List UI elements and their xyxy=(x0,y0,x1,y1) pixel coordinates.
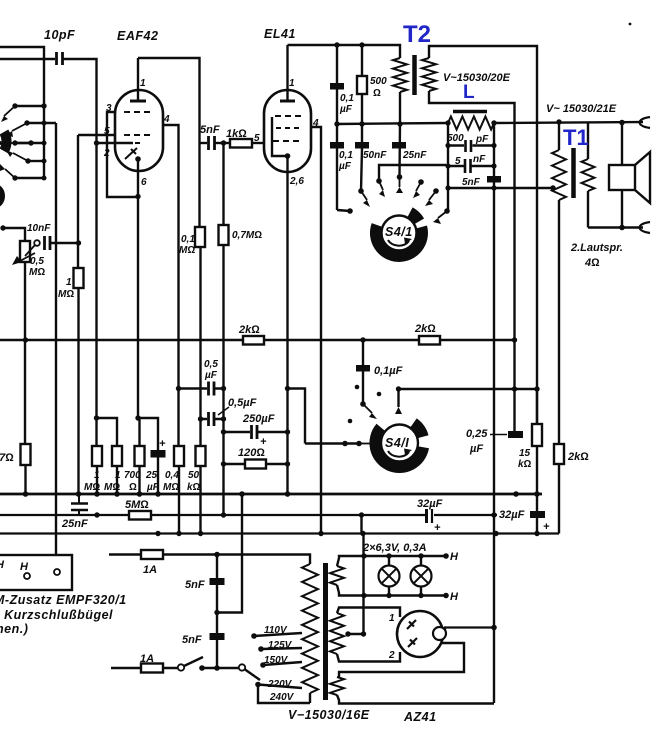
wire 0,1uF chain to S4/1 contact xyxy=(337,210,350,211)
switch S1 contact row 3 xyxy=(15,142,44,144)
svg-text:2: 2 xyxy=(388,650,395,661)
switch S1 contact row 5 xyxy=(15,177,44,179)
resistor 2kOhm right xyxy=(419,336,440,345)
transformer T1 right winding xyxy=(582,159,595,191)
svg-text:25nF: 25nF xyxy=(61,518,88,530)
resistor 5 MOhm in rail C xyxy=(129,511,151,520)
wire 50k to rail D xyxy=(199,466,201,533)
wire pot bottom down to 47 Ohm xyxy=(24,262,26,444)
capacitor 5nF blob on right rail xyxy=(487,176,501,183)
main bus 2k y340 xyxy=(0,339,515,341)
switch S1 contact row 1 xyxy=(15,105,44,107)
svg-text:1: 1 xyxy=(115,470,121,481)
switch S1 contact row 4 xyxy=(28,160,44,162)
svg-text:10pF: 10pF xyxy=(44,28,75,42)
ladder rung bottom wire to T1 tap xyxy=(448,187,553,189)
switch S4/2 left arrow xyxy=(359,443,370,445)
ladder left rail xyxy=(447,123,449,211)
junction dot 5nF mid xyxy=(214,610,219,615)
wire 10nF to 1M node xyxy=(50,242,78,244)
svg-text:4: 4 xyxy=(163,114,170,125)
capacitor 0,5uF screen wire xyxy=(179,387,224,389)
resistor 0,1 MOhm xyxy=(195,227,205,247)
AZ41 output wire xyxy=(445,628,496,631)
capacitor 0,5uF lower wire xyxy=(201,418,224,420)
capacitor 0,1uF lower blob xyxy=(330,142,344,149)
secondary HV winding xyxy=(330,613,344,654)
wire top-left input to node A xyxy=(0,47,44,178)
capacitor 32uF second blob xyxy=(530,511,545,518)
svg-text:H: H xyxy=(20,561,29,573)
junction dot jog xyxy=(285,386,290,391)
capacitor 250uF wire xyxy=(224,431,288,433)
svg-text:4Ω: 4Ω xyxy=(584,257,600,269)
svg-text:+: + xyxy=(159,438,166,450)
heater top lead to lamp rail xyxy=(337,556,446,566)
AZ41 side nipple xyxy=(433,627,446,640)
lamp 2 xyxy=(411,566,432,587)
svg-text:+: + xyxy=(543,521,550,533)
svg-text:5: 5 xyxy=(455,156,461,167)
T1 left top lead xyxy=(558,122,560,150)
svg-text:Ω: Ω xyxy=(373,88,381,99)
svg-text:6: 6 xyxy=(141,177,147,188)
ladder rung 5nF xyxy=(448,165,494,167)
T2 winding bottom lead xyxy=(399,92,401,124)
EL41 pin 4 lead xyxy=(311,127,321,533)
capacitor 0,1uF anode blob xyxy=(362,340,364,404)
secondary bias winding xyxy=(330,677,344,695)
capacitor 32uF electrolytic in rail C xyxy=(425,509,428,523)
capacitor 5nF line cap lower xyxy=(210,633,225,640)
speaker cone xyxy=(635,152,650,203)
wire fuse to primary top xyxy=(217,555,310,565)
resistor 1 MOhm row a xyxy=(92,446,102,466)
svg-text:220V: 220V xyxy=(267,679,293,690)
wire antenna input to 10pF xyxy=(0,58,55,60)
svg-text:+: + xyxy=(434,522,441,534)
svg-text:1: 1 xyxy=(289,78,295,89)
svg-text:2,6: 2,6 xyxy=(289,176,304,187)
wire 10pF to EAF42 grid line xyxy=(63,59,97,446)
svg-text:5nF: 5nF xyxy=(182,634,202,646)
capacitor 10nF xyxy=(45,236,51,250)
junction dot pin2 grid node xyxy=(94,140,99,145)
svg-text:2kΩ: 2kΩ xyxy=(567,451,589,463)
wire 5nF mid tap to rail xyxy=(217,494,242,613)
mains switch contact 1 xyxy=(178,664,184,670)
EL41 pins 2,6 lead down xyxy=(286,156,288,494)
rotary switch S1 lower blob xyxy=(0,184,5,208)
wire EL41 cathode jog xyxy=(288,389,306,444)
lamp 1 leads xyxy=(388,556,390,596)
T2 right bottom lead xyxy=(429,91,515,431)
capacitor 50nF blob xyxy=(355,142,369,149)
tap line 150V xyxy=(263,662,302,665)
svg-text:T1: T1 xyxy=(563,125,589,150)
svg-text:1: 1 xyxy=(66,277,72,288)
svg-text:AZ41: AZ41 xyxy=(403,710,437,724)
EAF42 anode pin 1 xyxy=(137,58,139,101)
svg-text:µF: µF xyxy=(339,104,353,115)
EAF42 grid pin 5 dashed xyxy=(124,134,153,136)
junction dot cathode jog xyxy=(135,415,140,420)
junction dots bus xyxy=(23,337,517,342)
junction dot cathode/pin3 xyxy=(135,194,140,199)
junction dot grid stopper node xyxy=(221,140,226,145)
svg-text:1kΩ: 1kΩ xyxy=(226,128,247,140)
secondary heater winding xyxy=(330,566,344,585)
svg-text:0,5µF: 0,5µF xyxy=(228,397,257,409)
node AVC dot xyxy=(0,225,5,230)
lamp 2 leads xyxy=(420,556,422,596)
svg-text:2kΩ: 2kΩ xyxy=(238,324,260,336)
svg-text:0,4: 0,4 xyxy=(165,470,179,481)
wire 47 Ohm to rail B xyxy=(24,465,26,494)
AZ41 anode 1 xyxy=(407,620,416,629)
tap line 220V xyxy=(258,685,302,689)
transformer T2 left winding xyxy=(393,58,407,92)
capacitor 0,1uF blob upper xyxy=(336,45,338,210)
junction dots top wire xyxy=(334,42,339,47)
junction dots rail B xyxy=(23,491,540,497)
wire EL41 anode top to T2 xyxy=(288,45,401,58)
transformer T2 core xyxy=(412,55,417,95)
wire 0,7M down to 120 Ohm node xyxy=(222,245,224,515)
resistor 1 MOhm row b xyxy=(112,446,122,466)
HV bottom lead to AZ41 pin2 xyxy=(337,652,400,662)
inductor L core bar xyxy=(453,110,487,114)
EL41 cathode dot xyxy=(285,153,291,159)
svg-text:5MΩ: 5MΩ xyxy=(125,499,149,511)
svg-text:50nF: 50nF xyxy=(363,150,387,161)
junction dots y389 xyxy=(360,386,540,407)
wire S4/2 feed y389 xyxy=(399,388,538,390)
switch S4/1 black arc top right segment xyxy=(407,207,424,224)
wire 700 Ohm to rail B xyxy=(138,466,140,494)
tap 240V bottom lead xyxy=(258,685,310,704)
svg-text:1: 1 xyxy=(94,470,100,481)
svg-text:S4/I: S4/I xyxy=(385,436,409,450)
resistor 120 Ohm xyxy=(224,463,288,465)
rail B main chassis xyxy=(0,493,542,496)
svg-text:5: 5 xyxy=(254,133,260,144)
svg-text:240V: 240V xyxy=(269,692,295,703)
junction dot heater tap xyxy=(361,631,366,636)
wire 1k to EL41 pin 5 xyxy=(252,142,264,144)
svg-text:2: 2 xyxy=(103,148,110,159)
capacitor 5nF coupling xyxy=(209,136,215,150)
svg-text:0,7MΩ: 0,7MΩ xyxy=(232,230,262,241)
ladder right rail long vertical xyxy=(493,123,495,703)
svg-text:50: 50 xyxy=(188,470,200,481)
rail C second xyxy=(0,514,497,516)
svg-text:S4/1: S4/1 xyxy=(385,225,413,239)
svg-text:µF: µF xyxy=(204,370,218,381)
transformer T1 left winding xyxy=(552,150,566,200)
svg-text:0,1: 0,1 xyxy=(340,93,354,104)
svg-text:4: 4 xyxy=(312,118,319,129)
capacitor 5nF line cap upper xyxy=(216,555,218,669)
switch S4/1 contact dots xyxy=(347,174,450,214)
rotary switch S1 partial left edge xyxy=(4,132,7,151)
EAF42 anode top wire to coupling node xyxy=(138,58,200,227)
wire coupling node y143 xyxy=(200,142,208,144)
junction dot jog row xyxy=(94,415,99,420)
svg-text:0,25: 0,25 xyxy=(466,428,488,440)
svg-text:µF: µF xyxy=(469,443,483,455)
svg-text:5nF: 5nF xyxy=(462,177,481,188)
HV top lead to AZ41 pin1 xyxy=(337,608,400,618)
junction dots lamp rails xyxy=(361,553,449,598)
inductor L winding xyxy=(448,117,494,130)
T1 core xyxy=(571,148,576,198)
svg-text:150V: 150V xyxy=(264,655,289,666)
resistor 1 MOhm grid xyxy=(74,268,84,288)
EAF42 pin 5 lead xyxy=(78,134,115,136)
pot tap diagonal xyxy=(25,245,35,256)
svg-text:25nF: 25nF xyxy=(402,150,427,161)
svg-text:250µF: 250µF xyxy=(242,413,275,425)
wire row b to rail B xyxy=(116,466,118,494)
stray dot top right xyxy=(629,23,632,26)
svg-text:5nF: 5nF xyxy=(185,579,205,591)
switch S4/2 thin circle xyxy=(381,425,418,462)
switch link wire S4/1 xyxy=(379,165,446,181)
svg-text:MΩ: MΩ xyxy=(58,289,74,300)
connector terminal circles xyxy=(24,573,30,579)
EL41 anode pin 1 xyxy=(286,45,288,101)
transformer T2 right winding xyxy=(422,58,436,91)
switch S1 contact row 2 xyxy=(27,122,56,124)
wire 0,1M down to 50k column xyxy=(199,247,201,446)
svg-text:0,1: 0,1 xyxy=(339,150,353,161)
svg-text:1: 1 xyxy=(140,78,146,89)
heater feed vertical xyxy=(348,515,364,634)
svg-text:125V: 125V xyxy=(268,640,293,651)
svg-text:0,5: 0,5 xyxy=(204,359,218,370)
wire 0,7M column xyxy=(222,143,224,225)
EL41 grid1 dashed xyxy=(275,115,301,117)
EL41 grid3 dashed xyxy=(273,140,300,142)
switch S4/2 black arc top segment xyxy=(410,418,428,438)
svg-text:47Ω: 47Ω xyxy=(0,452,14,464)
switch S4/1 rotation arrow xyxy=(388,240,409,246)
EAF42 grid pin 3 dashed xyxy=(124,111,154,113)
wire S4/2 top contact xyxy=(397,389,399,407)
EL41 grid2 dashed xyxy=(276,127,300,129)
svg-text:1A: 1A xyxy=(143,564,157,576)
svg-text:L: L xyxy=(463,82,475,103)
capacitor 25nF blob xyxy=(398,124,401,177)
EAF42 pin 6 lead down xyxy=(137,159,139,418)
resistor 47 Ohm xyxy=(21,444,31,465)
resistor 15 kOhm xyxy=(536,389,538,511)
svg-text:EAF42: EAF42 xyxy=(117,29,158,43)
resistor 1kOhm xyxy=(230,139,252,148)
cathode jog to 25uF xyxy=(138,418,158,450)
voltage tap dots xyxy=(251,633,266,687)
junction dots rail C xyxy=(94,512,496,517)
svg-text:500: 500 xyxy=(370,76,387,87)
fuse 1A upper xyxy=(109,553,217,555)
AZ41 cathode loop xyxy=(339,643,464,677)
wire grid leak column 1M xyxy=(77,135,79,268)
svg-text:V~15030/20E: V~15030/20E xyxy=(443,72,511,84)
T1 right top lead xyxy=(587,123,589,159)
junction dot 10nF node xyxy=(76,240,81,245)
junction dots 250uF xyxy=(221,429,226,434)
switch S4/2 black arc main xyxy=(369,424,429,473)
svg-text:EL41: EL41 xyxy=(264,27,296,41)
EAF42 cathode dot pin 6 xyxy=(135,156,141,162)
svg-text:700: 700 xyxy=(124,470,141,481)
svg-text:25: 25 xyxy=(145,470,158,481)
svg-text:5nF: 5nF xyxy=(200,124,220,136)
junction dots switch node xyxy=(199,665,205,671)
svg-text:H: H xyxy=(450,551,459,563)
junction dots speaker line xyxy=(619,225,625,231)
svg-text:µF: µF xyxy=(338,161,352,172)
resistor row jog 1M-1M xyxy=(97,418,118,446)
svg-text:500: 500 xyxy=(447,133,464,144)
rectifier AZ41 envelope xyxy=(397,611,443,657)
svg-text:Ω: Ω xyxy=(129,482,137,493)
EAF42 pin 2 lead xyxy=(97,142,134,144)
svg-text:10nF: 10nF xyxy=(27,223,51,234)
lamp 1 xyxy=(379,566,400,587)
junction dot fuse node xyxy=(214,552,220,558)
svg-text:15: 15 xyxy=(519,448,531,459)
svg-text:2.Lautspr.: 2.Lautspr. xyxy=(570,242,623,254)
svg-text:MΩ: MΩ xyxy=(163,482,179,493)
fuse 1A lower xyxy=(111,667,178,669)
wire 50nF to S4/1 contact xyxy=(361,148,362,191)
svg-text:M-Zusatz EMPF320/1: M-Zusatz EMPF320/1 xyxy=(0,593,127,607)
pot tap terminal circle xyxy=(34,240,40,246)
wire AVC node to pot top xyxy=(3,228,25,241)
svg-text:V−15030/16E: V−15030/16E xyxy=(288,708,370,722)
wire T1 bottom to speaker terminal xyxy=(588,226,643,228)
switch S4/2 contact dots xyxy=(342,385,381,447)
speaker terminal hook top xyxy=(640,117,651,128)
switch S4/1 thin circle xyxy=(382,216,417,251)
svg-text:2kΩ: 2kΩ xyxy=(414,323,436,335)
pot wiper arrow xyxy=(18,253,35,262)
AZ41 anode 2 xyxy=(408,638,417,647)
potentiometer 0,5 MOhm xyxy=(20,241,30,262)
resistor 0,4 MOhm xyxy=(174,446,184,466)
ladder rung 500pF xyxy=(448,144,494,146)
svg-text:MΩ: MΩ xyxy=(29,267,45,278)
anode HF rail y123 xyxy=(337,123,448,124)
tap line 110V xyxy=(254,633,302,636)
svg-text:V~ 15030/21E: V~ 15030/21E xyxy=(546,103,617,115)
bias winding bottom lead xyxy=(337,695,494,704)
junction dots rail y123 xyxy=(334,120,496,126)
svg-text:H: H xyxy=(450,591,459,603)
junction dots ladder xyxy=(445,143,555,191)
resistor 0,7 MOhm xyxy=(219,225,229,245)
HF rail continues to speaker xyxy=(494,122,643,123)
switch S4/2 rotation arrow xyxy=(388,451,409,457)
capacitor 25uF electrolytic blob xyxy=(151,450,166,458)
EAF42 diode plate xyxy=(125,148,137,159)
svg-text:120Ω: 120Ω xyxy=(238,447,265,459)
T1 right bottom lead xyxy=(587,191,589,228)
junction dots 0,5uF lower xyxy=(198,416,203,421)
wire 5nF to 1k xyxy=(215,142,231,144)
junction dot HT output xyxy=(491,625,497,631)
transformer primary winding xyxy=(302,564,318,693)
svg-text:1A: 1A xyxy=(140,653,154,665)
wire switch node xyxy=(202,667,239,669)
tube EAF42 envelope xyxy=(115,90,163,171)
svg-text:3: 3 xyxy=(106,103,112,114)
EAF42 pin 4 lead xyxy=(163,125,179,446)
resistor 700 Ohm xyxy=(138,418,140,446)
resistor 500 Ohm xyxy=(361,45,363,145)
switch S4/1 black arc main xyxy=(370,223,428,262)
speaker magnet box xyxy=(621,122,623,227)
switch S4/1 contact arrows xyxy=(361,177,447,218)
junction dots rail D xyxy=(155,531,539,536)
wire 0,4M to rail D xyxy=(178,466,180,533)
svg-text:2×6,3V, 0,3A: 2×6,3V, 0,3A xyxy=(362,542,427,554)
svg-text:1: 1 xyxy=(389,613,395,624)
svg-text:pF: pF xyxy=(475,134,489,145)
svg-text:T2: T2 xyxy=(403,21,431,48)
wire 25uF to rail B xyxy=(157,457,159,494)
junction dots 120 Ohm xyxy=(221,461,226,466)
svg-text:32µF: 32µF xyxy=(499,509,525,521)
resistor 50 kOhm xyxy=(196,446,206,466)
EL41 beam plate L xyxy=(272,117,287,156)
svg-text:hen.): hen.) xyxy=(0,622,28,636)
svg-text:n Kurzschlußbügel: n Kurzschlußbügel xyxy=(0,608,113,622)
transformer core power xyxy=(323,563,328,700)
junction dots 0,5uF upper xyxy=(176,386,181,391)
connector box EMPF xyxy=(0,555,72,590)
svg-text:nF: nF xyxy=(473,154,486,165)
wire 32uF second to rail D xyxy=(536,518,538,534)
mains switch contact 2 xyxy=(239,664,245,670)
T2 right top lead to HT line xyxy=(429,46,537,424)
wire band-switch bus down xyxy=(55,123,57,556)
junction dots switch S1 rows xyxy=(12,103,46,180)
resistor 2kOhm left xyxy=(243,336,264,345)
svg-text:5: 5 xyxy=(104,126,110,137)
resistor 2kOhm output chain xyxy=(558,200,560,534)
svg-text:32µF: 32µF xyxy=(417,498,443,510)
tube EL41 envelope xyxy=(264,90,311,172)
svg-text:0,1: 0,1 xyxy=(181,234,195,245)
capacitor C 10pF xyxy=(57,52,63,65)
heater bottom lead to lamp rail xyxy=(337,585,446,596)
switch S4/2 left contact wire xyxy=(305,442,359,444)
svg-text:MΩ: MΩ xyxy=(179,245,195,256)
svg-text:kΩ: kΩ xyxy=(187,482,201,493)
rail D third xyxy=(0,532,559,534)
svg-text:kΩ: kΩ xyxy=(518,459,532,470)
wire 1M to rail B xyxy=(77,288,79,494)
arrow 0,1uF to S4/2 xyxy=(363,404,372,413)
tap line 125V xyxy=(261,648,302,649)
capacitor 25nF rail B to rail C xyxy=(78,494,80,515)
capacitor 0,25uF blob xyxy=(508,431,523,438)
svg-text:0,1µF: 0,1µF xyxy=(374,365,403,377)
svg-text:110V: 110V xyxy=(264,625,288,636)
